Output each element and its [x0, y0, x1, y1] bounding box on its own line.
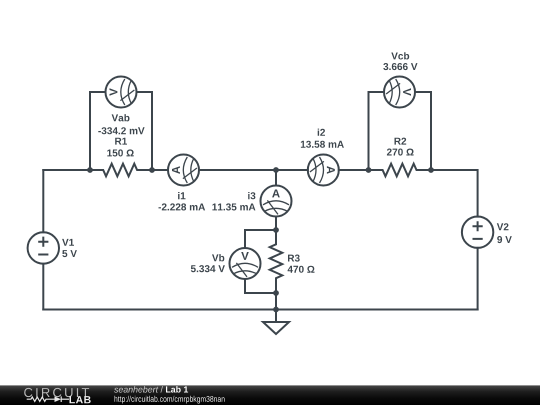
resistor R1 — [90, 164, 152, 177]
label Vab name — [112, 114, 130, 121]
voltage source V1 — [28, 232, 59, 263]
resistor R3 — [270, 230, 283, 293]
label R2 name — [395, 138, 407, 145]
wire i3 to node R3 top — [275, 217, 277, 231]
label V2 value — [497, 236, 512, 243]
label V1 value — [62, 250, 77, 257]
wire Vb branch top — [245, 230, 276, 248]
label i3 value — [212, 203, 255, 210]
voltage source V2 — [462, 217, 493, 248]
wire node B to i3 — [275, 170, 277, 186]
ground — [263, 310, 289, 335]
junction R3 top — [273, 227, 279, 233]
wire Vcb branch left riser — [369, 92, 385, 170]
label R1 name — [115, 138, 127, 145]
wire R1 to i1 — [152, 169, 168, 171]
attribution url — [115, 396, 225, 404]
label i3 name — [248, 192, 255, 199]
voltmeter Vb — [230, 248, 261, 279]
label R1 value — [107, 149, 133, 156]
wire i1 to node B — [199, 169, 308, 171]
wire right vertical bottom — [477, 248, 479, 310]
label i1 value — [159, 203, 206, 210]
label V1 name — [62, 239, 74, 246]
ammeter i3 — [261, 186, 292, 217]
attribution title — [166, 386, 188, 393]
junction R3 bottom — [273, 290, 279, 296]
logo resistor and diode line — [27, 396, 69, 402]
wire Vab branch right riser — [137, 92, 153, 170]
ammeter i1 — [168, 155, 199, 186]
voltmeter Vab — [106, 77, 137, 108]
logo LAB text — [70, 396, 91, 403]
wire Vcb branch right riser — [415, 92, 431, 170]
label i2 name — [318, 129, 325, 136]
logo CIRCUIT text — [24, 388, 89, 397]
label i2 value — [301, 141, 344, 148]
ammeter i2 — [308, 155, 339, 186]
wire R3 bottom to ground node — [275, 293, 277, 310]
label R3 value — [288, 266, 315, 273]
junction node C left — [366, 167, 372, 173]
attribution author — [114, 386, 163, 393]
wire left vertical bottom — [42, 264, 44, 310]
wire i2 to R2 — [339, 169, 369, 171]
wire top-left horizontal — [43, 169, 90, 171]
label i1 name — [178, 192, 185, 199]
label Vcb name — [391, 52, 409, 59]
resistor R2 — [369, 164, 432, 177]
wire R2 to right corner — [431, 170, 478, 217]
junction ground node — [273, 307, 279, 313]
label Vb value — [191, 265, 225, 272]
wire Vab branch left riser — [90, 92, 106, 170]
label Vb name — [212, 254, 224, 261]
label R2 value — [387, 149, 414, 156]
label V2 name — [497, 223, 509, 230]
wire bottom horizontal — [43, 309, 477, 311]
wire Vb branch bottom — [245, 279, 276, 293]
label Vab value — [98, 127, 144, 134]
junction node A right — [149, 167, 155, 173]
junction node A left — [87, 167, 93, 173]
voltmeter Vcb — [384, 77, 415, 108]
wire left vertical top — [42, 170, 44, 232]
junction node B — [273, 167, 279, 173]
footer bar — [0, 385, 540, 405]
label Vcb value — [383, 63, 417, 70]
junction node C right — [428, 167, 434, 173]
label R3 name — [288, 255, 300, 262]
